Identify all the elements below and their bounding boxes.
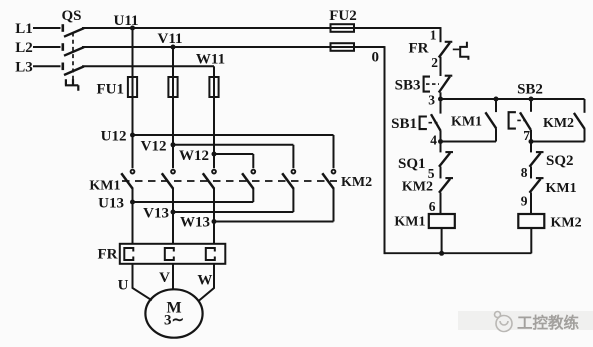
wire control L rail drop: [440, 27, 442, 42]
node 3a junction: [494, 97, 499, 102]
wire neutral rail drop: [384, 46, 386, 254]
switch QS pole 2 blade: [64, 47, 84, 56]
svg-text:2: 2: [431, 55, 438, 70]
switch QS pole 2 jaw: [61, 43, 64, 51]
wire motor lead W: [199, 264, 215, 301]
svg-text:W12: W12: [179, 148, 209, 164]
switch QS handle: [65, 79, 78, 91]
svg-text:V12: V12: [141, 139, 167, 155]
node V12: [171, 142, 176, 147]
svg-text:3∼: 3∼: [164, 313, 184, 329]
bottom rail junction: [439, 251, 444, 256]
switch SQ1 (NC limit): [439, 142, 453, 167]
wire W12 branch drop: [252, 154, 254, 168]
svg-text:W13: W13: [180, 215, 210, 231]
svg-text:工控教练: 工控教练: [517, 313, 580, 332]
svg-text:FU1: FU1: [97, 82, 125, 98]
wire W phase vertical: [213, 66, 215, 168]
button SB1 (NO start fwd): [420, 99, 441, 142]
node 3b junction: [529, 97, 534, 102]
wire node3 rail: [441, 98, 585, 100]
wire node9 segment: [530, 193, 532, 215]
node V11: [171, 45, 176, 50]
wire U12 branch: [133, 134, 334, 136]
wire W12 branch: [214, 153, 253, 155]
FR heater W: [206, 248, 215, 260]
wire L2 rail: [82, 46, 385, 48]
node U12: [130, 133, 135, 138]
svg-text:SQ2: SQ2: [546, 153, 574, 169]
wire L3 lead: [33, 65, 61, 67]
svg-text:KM2: KM2: [402, 180, 433, 195]
wire bottom control rail: [385, 252, 532, 254]
svg-text:U11: U11: [113, 13, 138, 29]
wire contact5 drop: [292, 188, 294, 212]
contact KM2 interlock (NC): [439, 178, 453, 193]
KM2 main contact 4: [242, 170, 255, 189]
KM1-KM2 linkage (dashed): [122, 180, 337, 182]
wire KM1 coil drop: [441, 228, 443, 253]
svg-text:FR: FR: [409, 41, 429, 57]
svg-text:0: 0: [372, 50, 380, 66]
svg-text:FU2: FU2: [329, 8, 357, 24]
switch QS pole 3 jaw: [61, 63, 64, 71]
svg-text:KM1: KM1: [546, 181, 577, 196]
svg-text:KM2: KM2: [543, 116, 574, 131]
wire L1 rail: [82, 27, 441, 29]
svg-text:QS: QS: [61, 8, 81, 24]
svg-text:U12: U12: [101, 129, 127, 145]
wire V12 branch drop: [292, 145, 294, 168]
svg-text:4: 4: [430, 133, 437, 148]
switch SQ2 (NC limit): [530, 142, 544, 167]
wire node5 segment: [440, 167, 442, 179]
coil KM1: [429, 214, 455, 228]
svg-text:KM1: KM1: [451, 115, 482, 130]
svg-text:SB2: SB2: [517, 82, 543, 98]
node V13: [171, 210, 176, 215]
svg-text:L1: L1: [15, 21, 33, 37]
wire node2 segment: [440, 57, 442, 76]
svg-text:SQ1: SQ1: [398, 156, 426, 172]
svg-text:U13: U13: [98, 196, 124, 212]
relay FR contact (NC): [439, 42, 469, 60]
contact KM1 aux (NO): [485, 99, 496, 142]
wire node8 segment: [530, 167, 532, 179]
wire U12 branch drop: [333, 135, 335, 168]
wire L3 rail: [82, 65, 214, 67]
svg-text:KM1: KM1: [394, 215, 425, 230]
svg-text:W11: W11: [196, 52, 225, 68]
node W13: [212, 219, 217, 224]
svg-text:3: 3: [428, 93, 435, 108]
svg-text:V11: V11: [157, 31, 182, 47]
fuse FU1b: [168, 77, 177, 97]
FR heater V: [165, 248, 174, 260]
wire motor lead U: [133, 264, 152, 301]
wire U lower vertical: [132, 188, 134, 244]
svg-text:9: 9: [521, 194, 528, 209]
wire node7 rail: [531, 141, 585, 143]
KM2 main contact 5: [282, 170, 295, 189]
wire V13 row: [173, 211, 293, 213]
wire contact4 drop: [252, 188, 254, 202]
svg-text:W: W: [197, 273, 212, 289]
svg-text:KM2: KM2: [551, 216, 582, 231]
wire motor lead V: [172, 264, 174, 290]
node 3: [438, 97, 443, 102]
wire contact6 drop: [333, 188, 335, 222]
switch QS pole 1 jaw: [61, 24, 64, 32]
thermal relay FR body: [120, 244, 226, 264]
svg-text:KM2: KM2: [341, 175, 372, 190]
svg-text:L2: L2: [15, 40, 33, 56]
node 7: [529, 139, 534, 144]
KM2 main contact 6: [322, 170, 335, 189]
wire node6 segment: [440, 193, 442, 215]
node 4: [438, 139, 443, 144]
svg-text:SB3: SB3: [395, 78, 421, 94]
contact KM2 aux (NO): [574, 99, 585, 142]
svg-text:6: 6: [429, 199, 436, 214]
switch QS linkage (dashed): [72, 33, 74, 80]
wire W13 row: [214, 221, 334, 223]
watermark band: [458, 311, 593, 330]
svg-text:8: 8: [521, 165, 528, 180]
fuse FU2a: [331, 24, 355, 32]
svg-text:FR: FR: [98, 247, 118, 263]
watermark logo: [495, 312, 513, 332]
wire U phase vertical: [132, 28, 134, 168]
wire L1 lead: [33, 27, 61, 29]
fuse FU1c: [209, 77, 218, 97]
wire L2 lead: [33, 46, 61, 48]
fuse FU2b: [331, 43, 355, 51]
wire node4 rail: [441, 141, 497, 143]
coil KM2: [518, 214, 544, 228]
button SB3 (NC stop): [424, 76, 453, 99]
fuse FU1a: [128, 77, 137, 97]
node U11: [130, 26, 135, 31]
wire V phase vertical: [172, 47, 174, 168]
KM1 main contact 2: [162, 170, 175, 189]
svg-text:SB1: SB1: [391, 116, 417, 132]
svg-text:L3: L3: [15, 59, 33, 75]
KM1 main contact 1: [121, 170, 134, 189]
node W12: [212, 152, 217, 157]
switch QS pole 3 blade: [64, 66, 84, 75]
svg-text:U: U: [118, 278, 129, 294]
KM1 main contact 3: [203, 170, 216, 189]
wire W lower vertical: [213, 188, 215, 244]
button SB2 (NO start rev): [509, 99, 531, 142]
svg-text:V13: V13: [143, 206, 169, 222]
wire V lower vertical: [172, 188, 174, 244]
wire KM2 coil drop: [530, 228, 532, 253]
svg-text:KM1: KM1: [89, 179, 120, 194]
motor M body: [145, 289, 202, 337]
switch QS pole 1 blade: [64, 28, 84, 37]
svg-text:V: V: [159, 270, 170, 286]
wire U13 row: [133, 201, 254, 203]
FR heater U: [124, 248, 133, 260]
svg-text:1: 1: [430, 28, 437, 43]
contact KM1 interlock (NC): [530, 178, 544, 193]
wire V12 branch: [173, 144, 293, 146]
node U13: [130, 200, 135, 205]
